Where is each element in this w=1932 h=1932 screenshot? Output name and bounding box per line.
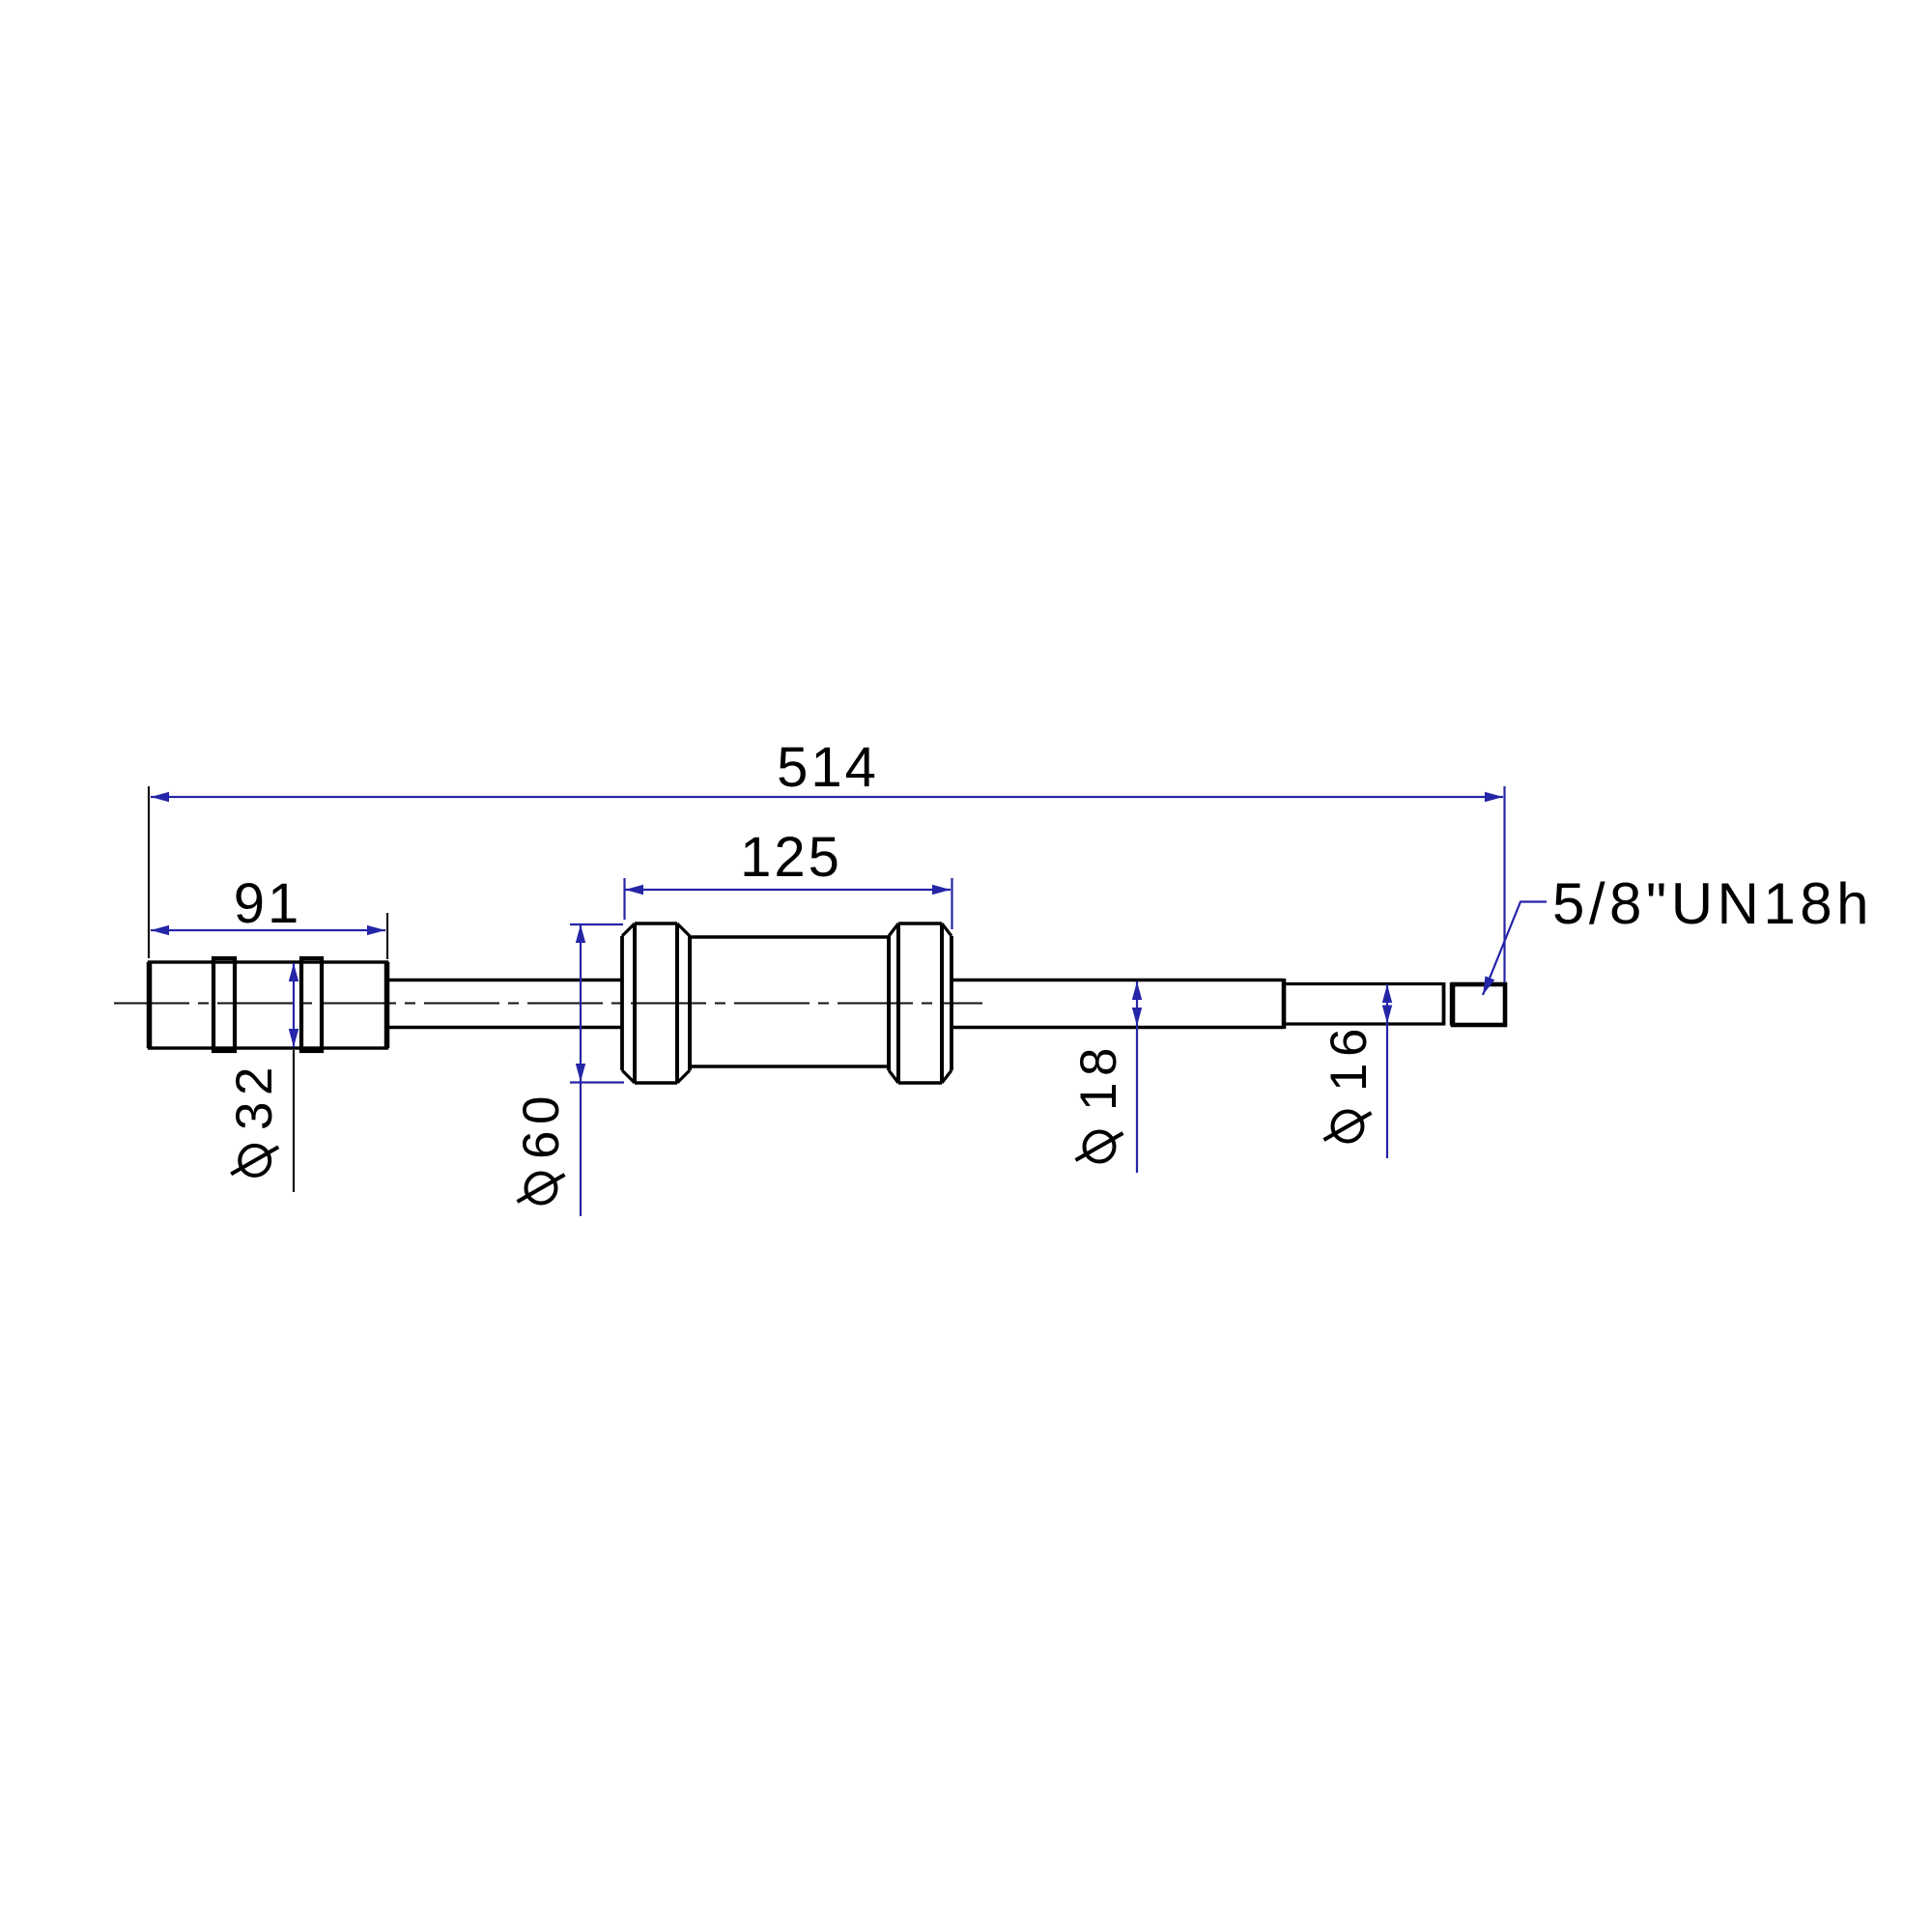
rib R1 on cylinder C1 bbox=[213, 958, 235, 1051]
rib R2 on cylinder C1 bbox=[301, 958, 322, 1051]
dimension 91 bbox=[151, 925, 385, 935]
dimension Ø60 text bbox=[513, 1090, 570, 1203]
flange F1 left collar Ø60 bbox=[622, 923, 690, 1083]
extension line blue right (514) bbox=[1503, 786, 1505, 982]
svg-text:5/8"UN18h: 5/8"UN18h bbox=[1552, 871, 1873, 936]
shaft segment S2 Ø18 right bbox=[952, 980, 1284, 1028]
extension line Ø32 lower bbox=[293, 1050, 295, 1192]
extension line 125 right bbox=[951, 878, 952, 929]
dimension 514 bbox=[151, 792, 1503, 802]
shaft segment S3 Ø16 bbox=[1284, 984, 1444, 1025]
cylinder C1 body Ø32 bbox=[150, 962, 387, 1048]
leader line 5/8"UN18h bbox=[1483, 902, 1547, 996]
middle body B1 bbox=[690, 937, 889, 1066]
centerline bbox=[114, 1003, 982, 1005]
dimension Ø16 bbox=[1382, 984, 1392, 1158]
dimension Ø18 text bbox=[1070, 1041, 1127, 1161]
dimension Ø16 text bbox=[1321, 1022, 1378, 1141]
dimension 125 bbox=[625, 885, 951, 895]
shaft segment S1 Ø18 left bbox=[387, 980, 624, 1028]
extension line 125 left bbox=[623, 878, 625, 920]
svg-text:125: 125 bbox=[740, 826, 842, 889]
step shoulder at Ø18/Ø16 bbox=[1282, 979, 1287, 1029]
flange F2 right collar Ø60 bbox=[889, 923, 952, 1083]
extension line right of 91 bbox=[386, 913, 388, 959]
svg-text:91: 91 bbox=[234, 872, 302, 935]
svg-text:16: 16 bbox=[1321, 1022, 1378, 1092]
svg-text:514: 514 bbox=[777, 736, 879, 799]
dimension Ø32 bbox=[289, 963, 298, 1047]
dimension Ø18 bbox=[1132, 981, 1142, 1173]
extension line left (514 and 91) bbox=[148, 786, 150, 958]
thread section 5/8"UN18h bbox=[1453, 984, 1505, 1025]
thread relief groove bbox=[1444, 982, 1452, 1026]
dimension Ø32 text bbox=[226, 1061, 283, 1176]
dimension Ø60 bbox=[570, 924, 624, 1216]
svg-text:32: 32 bbox=[226, 1061, 283, 1130]
svg-text:18: 18 bbox=[1070, 1041, 1127, 1111]
svg-text:60: 60 bbox=[513, 1090, 570, 1159]
